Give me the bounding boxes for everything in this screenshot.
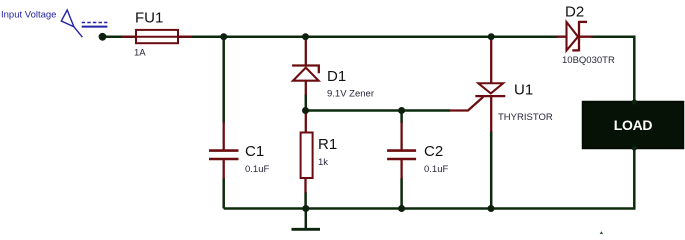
wire top horizontal [102, 35, 558, 38]
svg-text:0.1uF: 0.1uF [245, 164, 269, 175]
wire D1 anode to gate node [305, 94, 308, 111]
node LOAD top pin [632, 99, 637, 104]
svg-text:FU1: FU1 [135, 10, 163, 27]
svg-text:10BQ030TR: 10BQ030TR [562, 55, 615, 66]
thyristor U1 [449, 38, 505, 132]
svg-text:Input Voltage: Input Voltage [1, 9, 56, 20]
input annotation solid line [82, 26, 108, 28]
wire C1 branch upper [222, 37, 225, 123]
svg-text:9.1V Zener: 9.1V Zener [327, 89, 374, 100]
svg-text:C2: C2 [424, 143, 443, 160]
svg-text:1k: 1k [318, 157, 328, 168]
wire load bottom to bottom rail [224, 148, 635, 209]
wire C2 branch lower [400, 178, 403, 209]
node bottom ground [302, 205, 309, 212]
svg-text:LOAD: LOAD [614, 117, 653, 133]
node input junction [99, 33, 107, 41]
wire C1 branch lower [222, 178, 225, 209]
resistor R1 [301, 111, 313, 194]
wire R1 bottom [304, 192, 307, 209]
fuse FU1 [122, 30, 192, 43]
LOAD block [583, 102, 683, 148]
svg-text:0.1uF: 0.1uF [424, 164, 448, 175]
svg-text:C1: C1 [245, 143, 264, 160]
capacitor C2 [387, 122, 416, 179]
node top C1 [220, 33, 227, 40]
input annotation dashed line [82, 22, 108, 24]
input annotation arrow [61, 10, 82, 37]
svg-text:D2: D2 [565, 4, 584, 21]
node gate C2 [398, 107, 405, 114]
ground stub [305, 209, 308, 229]
ground bar [292, 228, 321, 231]
wire thyristor cathode [490, 131, 493, 209]
svg-text:D1: D1 [327, 68, 346, 85]
svg-text:THYRISTOR: THYRISTOR [498, 112, 553, 123]
node top D1 [302, 33, 309, 40]
svg-text:U1: U1 [514, 82, 533, 99]
node bottom U1 [488, 205, 495, 212]
svg-text:1A: 1A [134, 47, 146, 58]
capacitor C1 [209, 122, 239, 179]
cursor caret bottom right [600, 231, 604, 234]
diode D2 schottky [557, 21, 593, 51]
diode D1 zener [292, 38, 319, 95]
node bottom C2 [398, 205, 405, 212]
node LOAD bottom pin [632, 145, 637, 150]
wire top right after D2 [591, 37, 634, 101]
node top U1 [488, 33, 495, 40]
wire gate horizontal [306, 109, 451, 112]
node gate D1/R1 [302, 107, 309, 114]
svg-text:R1: R1 [318, 136, 337, 153]
wire C2 branch upper [400, 111, 403, 124]
